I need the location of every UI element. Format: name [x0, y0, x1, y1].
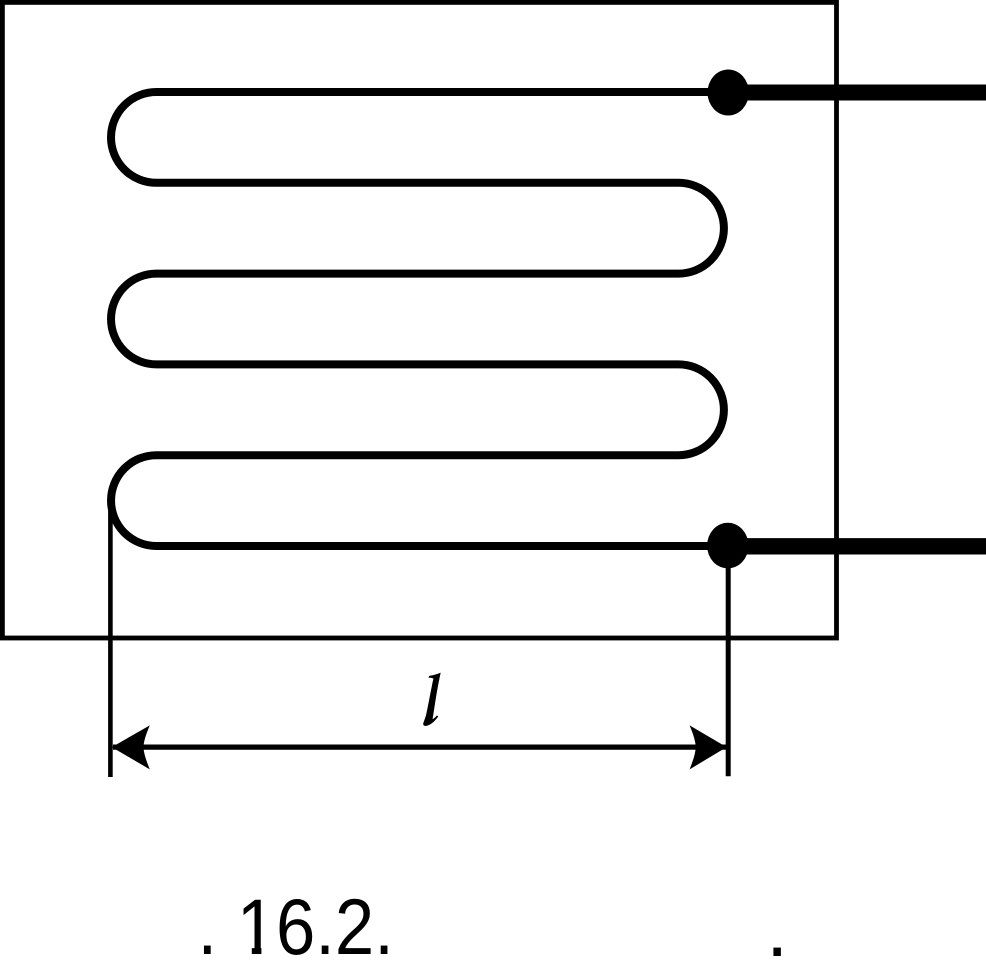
svg-text:.: .: [766, 885, 788, 973]
extension line right (dimension witness line): [726, 546, 731, 776]
svg-text:. 16.2.: . 16.2.: [198, 883, 394, 971]
dimension line for length l: [113, 744, 726, 749]
mask for digit 1 foot (left): [239, 947, 252, 958]
terminal node A (top solder pad): [708, 70, 749, 116]
arrowhead left: [112, 725, 150, 769]
resistor R grid (serpentine measuring wire): [111, 92, 728, 546]
arrowhead right: [690, 725, 727, 769]
substrate outline (gauge backing rectangle): [2, 2, 836, 638]
mask for digit 1 foot (right): [261, 947, 275, 958]
terminal node B (bottom solder pad): [707, 523, 748, 569]
label l (gauge base length): [423, 673, 441, 726]
wire (bottom lead-out conductor): [728, 538, 986, 554]
extension line left (dimension witness line): [108, 501, 113, 777]
wire (top lead-out conductor): [728, 84, 986, 100]
